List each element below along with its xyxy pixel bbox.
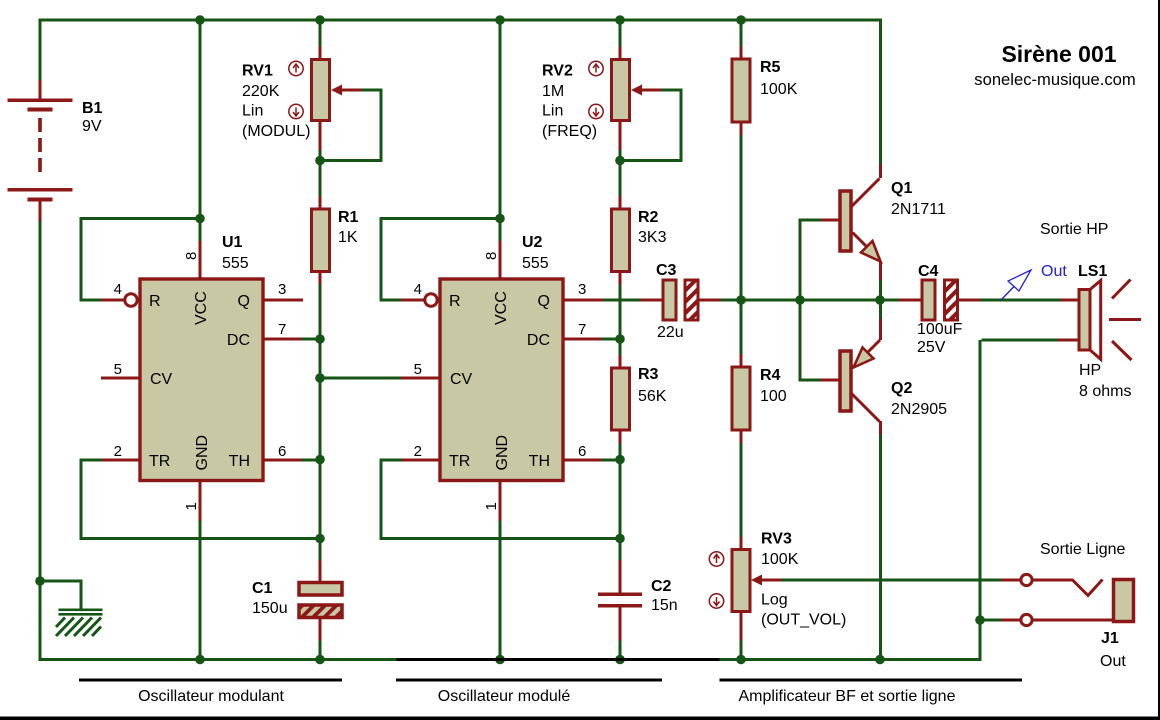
- svg-text:8: 8: [183, 252, 200, 260]
- svg-text:15n: 15n: [651, 597, 678, 614]
- caption Oscillateur module: [438, 688, 571, 705]
- svg-text:RV2: RV2: [542, 63, 573, 80]
- junction node 5 (741,20): [736, 15, 746, 25]
- svg-text:Q: Q: [238, 293, 250, 310]
- wire Q1 emitter to node: [879, 280, 882, 300]
- pin name VCC (U2): [493, 291, 510, 325]
- label R2: [638, 209, 659, 226]
- svg-text:Oscillateur modulé: Oscillateur modulé: [438, 688, 571, 705]
- svg-text:VCC: VCC: [193, 291, 210, 325]
- pin name GND (U1): [194, 435, 211, 471]
- pin name TH (U1): [229, 453, 250, 470]
- junction node 13 (620,160.5): [615, 156, 625, 166]
- page border bottom: [0, 717, 1160, 720]
- svg-text:2: 2: [114, 443, 122, 460]
- wire RV2 wiper loop: [622, 89, 683, 163]
- wire Q2 emitter from node: [879, 300, 882, 319]
- wire RV1 wiper loop: [322, 89, 383, 163]
- svg-text:150u: 150u: [252, 600, 288, 617]
- svg-text:Q2: Q2: [891, 380, 912, 397]
- black overlay on ground rail: [397, 658, 720, 661]
- junction node 23 (320,659.5): [315, 655, 325, 665]
- junction node 1 (200,20): [195, 15, 205, 25]
- svg-text:DC: DC: [227, 332, 250, 349]
- svg-text:R2: R2: [638, 209, 659, 226]
- pin name R (U1): [149, 293, 161, 310]
- speaker LS1: [1058, 280, 1142, 361]
- label 2N2905: [891, 401, 947, 418]
- svg-text:C3: C3: [656, 262, 677, 279]
- pin name CV (U1): [150, 371, 173, 388]
- label 25V: [917, 339, 946, 356]
- svg-text:6: 6: [578, 443, 586, 460]
- label R3: [638, 366, 659, 383]
- wire C3 to node BASE: [721, 299, 900, 302]
- junction node 7 (500,218.5): [495, 214, 505, 224]
- svg-text:2N1711: 2N1711: [891, 201, 946, 218]
- pin name TR (U2): [449, 453, 470, 470]
- svg-text:5: 5: [414, 361, 422, 378]
- svg-text:CV: CV: [150, 371, 173, 388]
- svg-text:DC: DC: [527, 332, 550, 349]
- wire +9V top rail: [39, 19, 883, 22]
- svg-text:Lin: Lin: [542, 103, 563, 120]
- wire transistor base column: [799, 219, 822, 382]
- svg-text:9V: 9V: [82, 118, 102, 135]
- wire node FREQ column: [619, 20, 622, 658]
- svg-text:U2: U2: [522, 234, 543, 251]
- wire jack sleeve return: [979, 619, 1002, 622]
- label LS1: [1078, 263, 1107, 280]
- junction node 3 (500,20): [495, 15, 505, 25]
- svg-text:100K: 100K: [760, 81, 798, 98]
- label 220K: [242, 83, 280, 100]
- wire U2 discharge link: [602, 338, 619, 341]
- junction node 15 (620,459.5): [615, 455, 625, 465]
- pin number 6 (U2): [578, 443, 586, 460]
- junction node 2 (320,20): [315, 15, 325, 25]
- pin number 4 (U1): [114, 281, 122, 298]
- svg-text:HP: HP: [1079, 362, 1101, 379]
- pin name Q (U1): [238, 293, 250, 310]
- svg-text:U1: U1: [222, 234, 243, 251]
- wire U1 reset loop: [80, 217, 203, 302]
- svg-text:5: 5: [114, 361, 122, 378]
- pin number 1 (U1): [183, 502, 200, 510]
- svg-text:RV1: RV1: [242, 63, 273, 80]
- junction node 27 (880,659.5): [875, 655, 885, 665]
- svg-text:Sortie Ligne: Sortie Ligne: [1040, 541, 1125, 558]
- label 9V: [82, 118, 102, 135]
- label Lin: [242, 103, 263, 120]
- junction node 22 (200,659.5): [195, 655, 205, 665]
- svg-text:2: 2: [414, 443, 422, 460]
- pin number 8 (U1): [183, 252, 200, 260]
- label Lin: [542, 103, 563, 120]
- svg-text:4: 4: [114, 281, 122, 298]
- wire U2 control-voltage link: [322, 377, 403, 380]
- label RV2: [542, 63, 573, 80]
- pin number 8 (U2): [483, 252, 500, 260]
- label 100K (RV3): [761, 551, 799, 568]
- svg-text:B1: B1: [82, 100, 103, 117]
- label 2N1711: [891, 201, 946, 218]
- svg-text:100: 100: [760, 388, 787, 405]
- wire U2 reset loop: [380, 217, 503, 302]
- junction node 10 (320,378): [315, 373, 325, 383]
- svg-text:(OUT_VOL): (OUT_VOL): [761, 612, 846, 629]
- label 1M: [542, 83, 564, 100]
- svg-text:R1: R1: [338, 209, 359, 226]
- svg-text:56K: 56K: [638, 388, 667, 405]
- pin name TH (U2): [529, 453, 550, 470]
- svg-text:sonelec-musique.com: sonelec-musique.com: [974, 70, 1135, 89]
- pin number 3 (U1): [278, 281, 286, 298]
- svg-text:R5: R5: [760, 59, 781, 76]
- pin number 2 (U1): [114, 443, 122, 460]
- junction node 24 (500,659.5): [495, 655, 505, 665]
- wire battery positive lead: [39, 20, 42, 80]
- label C3: [656, 262, 677, 279]
- label 100K: [760, 81, 798, 98]
- pin name DC (U1): [227, 332, 250, 349]
- wire C4 to speaker: [980, 299, 1061, 302]
- signal arrow Out: [1001, 270, 1031, 300]
- wire U2 VCC drop: [499, 20, 502, 241]
- label (FREQ): [542, 123, 597, 140]
- pin number 5 (U2): [414, 361, 422, 378]
- pin name GND (U2): [494, 435, 511, 471]
- label C1: [252, 580, 273, 597]
- junction node 14 (620,339): [615, 334, 625, 344]
- label 100: [760, 388, 787, 405]
- label 15n: [651, 597, 678, 614]
- wire U1 discharge link: [302, 338, 319, 341]
- capacitor C2: [598, 561, 642, 642]
- label 555 (U1): [222, 255, 249, 272]
- wire U2 trigger loop: [380, 459, 619, 541]
- label 56K: [638, 388, 667, 405]
- svg-text:1: 1: [183, 502, 200, 510]
- svg-text:100K: 100K: [761, 551, 799, 568]
- svg-text:(FREQ): (FREQ): [542, 123, 597, 140]
- label C4: [918, 263, 939, 280]
- resistor R2: [612, 196, 630, 285]
- wire battery negative lead to ground rail: [39, 221, 42, 661]
- label C2: [651, 578, 672, 595]
- resistor R5: [732, 47, 750, 136]
- svg-text:4: 4: [414, 281, 422, 298]
- svg-text:VCC: VCC: [493, 291, 510, 325]
- wire U1 VCC drop: [199, 20, 202, 241]
- svg-text:TR: TR: [449, 453, 470, 470]
- label Out (blue): [1041, 263, 1067, 280]
- junction node 21 (980,620): [975, 615, 985, 625]
- svg-text:TH: TH: [229, 453, 250, 470]
- pin name VCC (U1): [193, 291, 210, 325]
- caption Amplificateur BF: [739, 688, 956, 705]
- wire U2 output to C3: [602, 299, 641, 302]
- label U2: [522, 234, 543, 251]
- capacitor C1: [299, 561, 342, 642]
- label Q1: [891, 180, 912, 197]
- svg-text:GND: GND: [194, 435, 211, 471]
- svg-text:8: 8: [483, 252, 500, 260]
- label 22u: [657, 324, 684, 341]
- pin number 4 (U2): [414, 281, 422, 298]
- svg-text:7: 7: [578, 321, 586, 338]
- wire U1 trigger loop: [80, 459, 319, 541]
- svg-text:Lin: Lin: [242, 103, 263, 120]
- junction node 6 (200,218.5): [195, 214, 205, 224]
- junction node 17 (741,300): [736, 295, 746, 305]
- label B1: [82, 100, 103, 117]
- pin number 6 (U1): [278, 443, 286, 460]
- label 1K: [338, 229, 358, 246]
- svg-text:R4: R4: [760, 367, 781, 384]
- wire U2 threshold link: [602, 459, 619, 462]
- pin number 3 (U2): [578, 281, 586, 298]
- svg-text:3: 3: [578, 281, 586, 298]
- svg-text:Out: Out: [1100, 653, 1126, 670]
- caption Oscillateur modulant: [138, 688, 284, 705]
- junction node 12 (320,538.5): [315, 534, 325, 544]
- bracket oscillateur modulant: [79, 679, 342, 682]
- svg-text:J1: J1: [1101, 630, 1119, 647]
- svg-text:TH: TH: [529, 453, 550, 470]
- svg-text:2N2905: 2N2905: [891, 401, 947, 418]
- capacitor C4: [899, 280, 980, 320]
- svg-text:Oscillateur modulant: Oscillateur modulant: [138, 688, 284, 705]
- label Log: [761, 592, 788, 609]
- svg-text:(MODUL): (MODUL): [242, 123, 310, 140]
- svg-text:C4: C4: [918, 263, 939, 280]
- pin number 2 (U2): [414, 443, 422, 460]
- svg-text:Out: Out: [1041, 263, 1067, 280]
- page border right: [1158, 0, 1160, 720]
- capacitor C3: [641, 280, 721, 320]
- connector J1: [1001, 574, 1134, 625]
- transistor Q2: [820, 319, 882, 434]
- label Sortie HP: [1040, 221, 1108, 238]
- junction node 25 (620,659.5): [615, 655, 625, 665]
- wire node MOD column: [319, 20, 322, 658]
- junction node 9 (320,339): [315, 334, 325, 344]
- svg-text:Log: Log: [761, 592, 788, 609]
- svg-text:1M: 1M: [542, 83, 564, 100]
- svg-text:220K: 220K: [242, 83, 280, 100]
- junction node 11 (320,459.5): [315, 455, 325, 465]
- svg-text:555: 555: [222, 255, 249, 272]
- svg-text:22u: 22u: [657, 324, 684, 341]
- svg-text:R: R: [449, 293, 461, 310]
- label 100uF: [917, 321, 963, 338]
- potentiometer RV3: [709, 537, 781, 641]
- svg-text:1: 1: [483, 502, 500, 510]
- junction node 4 (620,20): [615, 15, 625, 25]
- wire RV3 wiper to jack tip: [782, 579, 1002, 582]
- subtitle sonelec-musique.com: [974, 70, 1135, 89]
- label 555 (U2): [522, 255, 549, 272]
- label 8 ohms: [1079, 383, 1131, 400]
- potentiometer RV1: [289, 47, 362, 151]
- svg-text:6: 6: [278, 443, 286, 460]
- svg-text:Sirène 001: Sirène 001: [1001, 41, 1116, 67]
- pin number 7 (U2): [578, 321, 586, 338]
- svg-text:RV3: RV3: [761, 531, 792, 548]
- junction node 19 (880,300): [875, 295, 885, 305]
- svg-text:Q: Q: [538, 293, 550, 310]
- resistor R3: [612, 355, 630, 444]
- pin name CV (U2): [450, 371, 473, 388]
- pin name Q (U2): [538, 293, 550, 310]
- svg-text:Amplificateur BF et sortie lig: Amplificateur BF et sortie ligne: [739, 688, 956, 705]
- svg-text:25V: 25V: [917, 339, 946, 356]
- svg-text:R3: R3: [638, 366, 659, 383]
- bracket amplificateur: [720, 679, 1023, 682]
- label (MODUL): [242, 123, 310, 140]
- svg-text:R: R: [149, 293, 161, 310]
- bracket oscillateur module: [396, 679, 662, 682]
- pin name TR (U1): [149, 453, 170, 470]
- label RV3: [761, 531, 792, 548]
- svg-text:1K: 1K: [338, 229, 358, 246]
- label R1: [338, 209, 359, 226]
- wire speaker return: [979, 339, 1058, 659]
- svg-text:TR: TR: [149, 453, 170, 470]
- op-amp U2 555 timer: [401, 241, 603, 658]
- svg-text:3: 3: [278, 281, 286, 298]
- svg-text:CV: CV: [450, 371, 473, 388]
- svg-text:3K3: 3K3: [638, 229, 667, 246]
- junction node 18 (800,300): [795, 295, 805, 305]
- label R4: [760, 367, 781, 384]
- junction node 20 (40,581): [35, 576, 45, 586]
- label RV1: [242, 63, 273, 80]
- wire U1 threshold link: [302, 459, 319, 462]
- pin name DC (U2): [527, 332, 550, 349]
- pin number 1 (U2): [483, 502, 500, 510]
- svg-text:Q1: Q1: [891, 180, 912, 197]
- svg-text:8 ohms: 8 ohms: [1079, 383, 1131, 400]
- label HP: [1079, 362, 1101, 379]
- label R5: [760, 59, 781, 76]
- svg-text:Sortie HP: Sortie HP: [1040, 221, 1108, 238]
- wire ground bottom rail: [39, 658, 982, 661]
- label 3K3: [638, 229, 667, 246]
- svg-text:100uF: 100uF: [917, 321, 963, 338]
- label J1: [1101, 630, 1119, 647]
- junction node 26 (741,659.5): [736, 655, 746, 665]
- wire ground symbol tap: [39, 580, 83, 609]
- wire R5-R4 column: [740, 20, 743, 658]
- label Out (J1): [1100, 653, 1126, 670]
- pin name R (U2): [449, 293, 461, 310]
- transistor Q1: [821, 164, 882, 280]
- pin number 5 (U1): [114, 361, 122, 378]
- svg-text:555: 555: [522, 255, 549, 272]
- label Q2: [891, 380, 912, 397]
- svg-text:GND: GND: [494, 435, 511, 471]
- label 150u: [252, 600, 288, 617]
- pin number 7 (U1): [278, 321, 286, 338]
- wire Q2 collector to ground rail: [879, 434, 882, 658]
- potentiometer RV2: [589, 47, 662, 151]
- wire node to C4: [883, 299, 899, 302]
- battery B1: [8, 80, 73, 221]
- ground: [56, 609, 103, 637]
- resistor R1: [312, 196, 330, 285]
- label U1: [222, 234, 243, 251]
- op-amp U1 555 timer: [101, 241, 303, 658]
- svg-text:7: 7: [278, 321, 286, 338]
- wire Q1 collector drop: [879, 20, 882, 164]
- junction node 8 (320,160.5): [315, 156, 325, 166]
- resistor R4: [732, 354, 750, 443]
- label Sortie Ligne: [1040, 541, 1125, 558]
- label (OUT_VOL): [761, 612, 846, 629]
- junction node 16 (620,538.5): [615, 534, 625, 544]
- svg-text:LS1: LS1: [1078, 263, 1107, 280]
- title Sirène 001: [1001, 41, 1116, 67]
- svg-text:C1: C1: [252, 580, 273, 597]
- svg-text:C2: C2: [651, 578, 672, 595]
